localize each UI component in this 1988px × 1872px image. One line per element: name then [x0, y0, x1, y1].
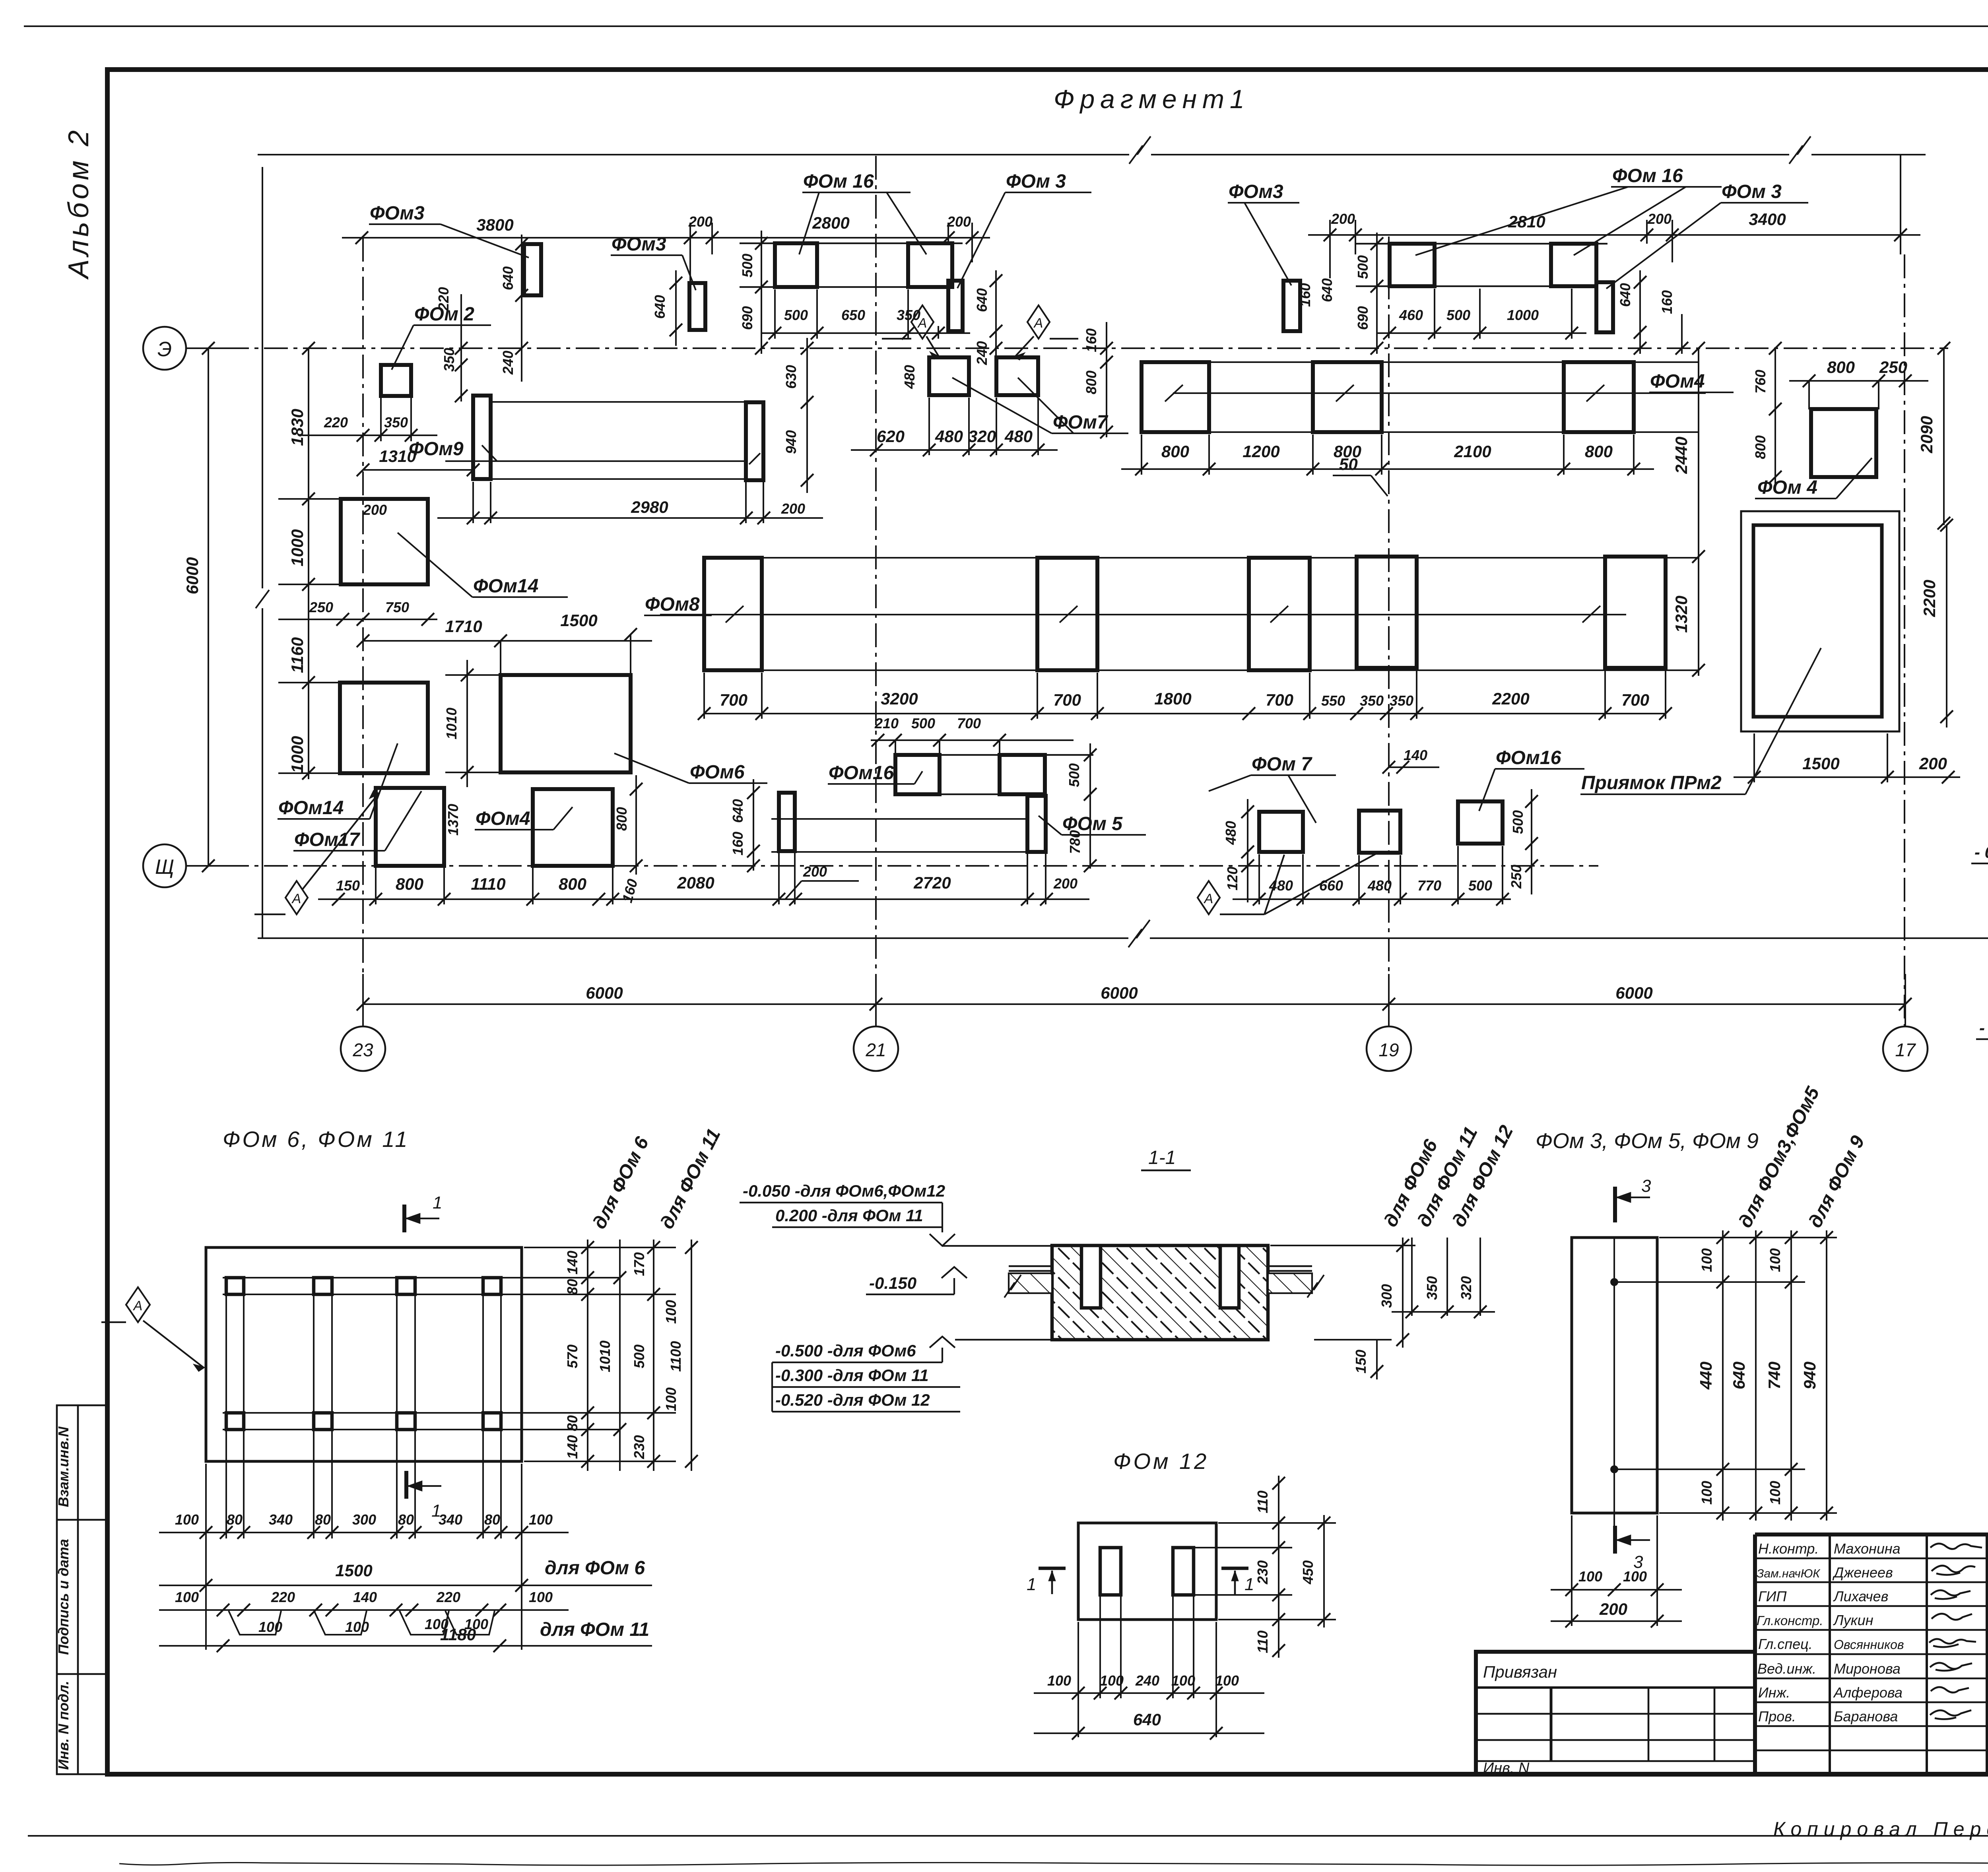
svg-text:740: 740 — [1765, 1362, 1784, 1389]
svg-text:1500: 1500 — [335, 1561, 372, 1580]
svg-text:1010: 1010 — [597, 1340, 613, 1372]
svg-text:100: 100 — [175, 1589, 199, 1605]
svg-text:800: 800 — [1827, 358, 1855, 376]
svg-text:640: 640 — [652, 295, 668, 319]
svg-text:ФОм9: ФОм9 — [409, 438, 464, 460]
svg-text:6000: 6000 — [1101, 984, 1138, 1002]
svg-text:А: А — [1033, 316, 1043, 331]
foundation ФОм5 left thin rect — [779, 793, 795, 851]
svg-text:140: 140 — [564, 1251, 580, 1275]
foundation ФОм7 sq1 — [929, 357, 969, 395]
svg-text:ФОм6: ФОм6 — [690, 762, 745, 783]
center line — [1613, 1238, 1615, 1538]
svg-text:6000: 6000 — [586, 984, 623, 1002]
svg-text:200: 200 — [1599, 1600, 1627, 1618]
sheet outer cut line bottom — [28, 1835, 1988, 1837]
svg-text:А: А — [133, 1298, 143, 1313]
right dims — [1195, 1476, 1336, 1658]
svg-text:Дженеев: Дженеев — [1832, 1564, 1893, 1581]
svg-text:200: 200 — [1331, 211, 1355, 227]
left top chain line — [342, 237, 990, 239]
section mark 1 bottom — [406, 1471, 441, 1499]
svg-text:150: 150 — [336, 877, 360, 894]
svg-text:230: 230 — [631, 1435, 647, 1459]
svg-text:480: 480 — [1004, 427, 1033, 446]
pit Приямок ПРм2 outer — [1741, 511, 1899, 731]
svg-text:640: 640 — [1319, 278, 1335, 302]
svg-text:1: 1 — [1027, 1575, 1036, 1594]
svg-text:500: 500 — [1446, 307, 1470, 323]
strip lines — [660, 558, 1699, 670]
FOm9 extension lines — [445, 402, 746, 479]
svg-text:160: 160 — [1297, 283, 1313, 307]
svg-text:100: 100 — [258, 1619, 282, 1635]
svg-text:2100: 2100 — [1454, 442, 1491, 461]
svg-text:800: 800 — [1585, 442, 1613, 461]
svg-text:500: 500 — [911, 715, 935, 731]
svg-text:2440: 2440 — [1672, 436, 1691, 474]
foundation ФОм7 sq4 — [1359, 811, 1400, 853]
svg-text:для ФОм 6: для ФОм 6 — [545, 1558, 645, 1579]
svg-text:2080: 2080 — [677, 873, 714, 892]
svg-text:Овсянников: Овсянников — [1834, 1637, 1904, 1652]
svg-text:Инж.: Инж. — [1758, 1684, 1790, 1701]
beam outline group2 — [1356, 244, 1607, 286]
svg-text:660: 660 — [1319, 877, 1343, 894]
anchor dots — [1610, 1278, 1618, 1286]
svg-text:Лукин: Лукин — [1833, 1612, 1873, 1628]
right flange — [1268, 1266, 1312, 1271]
svg-text:100: 100 — [1578, 1568, 1602, 1585]
svg-text:640: 640 — [1133, 1710, 1161, 1729]
svg-text:350: 350 — [1360, 693, 1384, 709]
svg-text:19: 19 — [1378, 1040, 1399, 1060]
foundation ФОм2 — [381, 365, 411, 396]
svg-text:Приямок ПРм2: Приямок ПРм2 — [1581, 772, 1722, 793]
svg-text:Миронова: Миронова — [1834, 1661, 1901, 1677]
svg-text:50: 50 — [1339, 455, 1358, 473]
foundation ФОм16 g3 rect1 — [895, 755, 940, 794]
svg-text:1000: 1000 — [288, 529, 307, 566]
left margin strip — [57, 1405, 107, 1774]
svg-text:620: 620 — [877, 427, 905, 446]
svg-text:350: 350 — [1390, 693, 1413, 709]
beam lines g3 — [940, 755, 1093, 794]
svg-text:80: 80 — [398, 1511, 414, 1528]
svg-text:1: 1 — [1244, 1575, 1254, 1594]
svg-text:ФОм14: ФОм14 — [278, 797, 344, 819]
svg-text:700: 700 — [957, 715, 981, 731]
svg-text:1: 1 — [433, 1193, 442, 1212]
foundation ФОм16 group2 rect1 — [1390, 244, 1435, 286]
svg-text:1000: 1000 — [288, 736, 307, 773]
diamond A detail — [101, 1287, 204, 1371]
svg-text:220: 220 — [436, 1589, 460, 1605]
svg-text:100: 100 — [1047, 1672, 1071, 1689]
diamond A 1 — [882, 305, 939, 359]
foundation ФОм3 d — [1283, 281, 1300, 331]
svg-text:780: 780 — [1067, 830, 1083, 854]
plan top boundary line — [258, 136, 1926, 164]
axis Э circle — [143, 327, 186, 370]
svg-text:480: 480 — [1367, 877, 1392, 894]
svg-text:700: 700 — [1621, 691, 1649, 709]
svg-text:200: 200 — [688, 213, 712, 230]
strip lines FOm4 row — [1142, 362, 1699, 432]
svg-text:3200: 3200 — [881, 689, 918, 708]
svg-text:Копировал Перелыгина: Копировал Перелыгина — [1773, 1818, 1988, 1840]
svg-text:-0.520 -для ФОм 12: -0.520 -для ФОм 12 — [775, 1391, 930, 1409]
svg-text:640: 640 — [730, 799, 746, 823]
foundation ФОм3 c — [948, 281, 963, 331]
axis Щ circle — [143, 844, 186, 887]
left attachment table — [1476, 1652, 1755, 1774]
svg-text:200: 200 — [1919, 754, 1947, 773]
svg-text:-0.500 -для ФОм6: -0.500 -для ФОм6 — [775, 1341, 916, 1360]
svg-text:Подпись и дата: Подпись и дата — [55, 1539, 72, 1655]
svg-text:1370: 1370 — [445, 804, 461, 836]
svg-text:100: 100 — [529, 1511, 553, 1528]
svg-text:110: 110 — [1254, 1630, 1271, 1653]
svg-text:480: 480 — [1269, 877, 1293, 894]
leader line through row — [1165, 385, 1706, 402]
svg-text:690: 690 — [1355, 306, 1371, 330]
foundation ФОм5 — [1027, 796, 1046, 852]
svg-text:640: 640 — [974, 288, 990, 312]
svg-text:640: 640 — [1617, 283, 1633, 307]
svg-text:640: 640 — [500, 266, 516, 290]
foundation ФОм8 r5 — [1605, 557, 1666, 668]
body — [1078, 1523, 1216, 1620]
svg-text:А: А — [1204, 891, 1213, 906]
svg-text:80: 80 — [227, 1511, 243, 1528]
svg-text:-0.150: -0.150 — [869, 1274, 916, 1292]
svg-text:500: 500 — [1468, 877, 1492, 894]
svg-text:23: 23 — [352, 1040, 373, 1060]
foundation ФОм16 group1 rect2 — [908, 243, 952, 287]
hole squares top row — [226, 1278, 244, 1294]
right top chain line — [1308, 234, 1920, 236]
axis 21 line — [875, 156, 877, 1026]
svg-text:1160: 1160 — [288, 637, 307, 673]
svg-text:для ФОм 11: для ФОм 11 — [540, 1619, 649, 1640]
foundation ФОм17 rect — [376, 788, 444, 866]
foundation ФОм14 lower — [340, 683, 428, 773]
svg-text:1200: 1200 — [1242, 442, 1279, 461]
svg-text:200: 200 — [1647, 211, 1672, 227]
svg-text:ФОм8: ФОм8 — [645, 594, 700, 615]
svg-text:100: 100 — [1767, 1248, 1783, 1272]
svg-text:17: 17 — [1895, 1040, 1916, 1060]
svg-text:350: 350 — [1424, 1276, 1440, 1300]
hole squares bottom row — [226, 1413, 244, 1430]
diamond A 4 — [254, 791, 379, 914]
svg-text:800: 800 — [613, 807, 630, 831]
svg-text:480: 480 — [901, 365, 918, 389]
svg-text:110: 110 — [1254, 1490, 1271, 1513]
svg-text:А: А — [917, 316, 927, 331]
svg-text:Махонина: Махонина — [1834, 1540, 1901, 1557]
svg-text:200: 200 — [803, 863, 827, 880]
svg-text:500: 500 — [1355, 255, 1371, 279]
svg-text:140: 140 — [564, 1435, 580, 1459]
svg-text:Баранова: Баранова — [1834, 1708, 1898, 1725]
svg-text:1710: 1710 — [445, 617, 482, 636]
svg-text:460: 460 — [1399, 307, 1423, 323]
foundation ФОм16 square — [1458, 801, 1503, 844]
svg-text:100: 100 — [1215, 1672, 1239, 1689]
svg-text:1800: 1800 — [1154, 689, 1191, 708]
foundation ФОм9 right post — [746, 402, 763, 480]
left flange — [1009, 1266, 1052, 1271]
svg-text:А: А — [291, 891, 301, 906]
svg-text:1180: 1180 — [440, 1625, 476, 1644]
foundation ФОм8 r1 — [704, 558, 762, 670]
svg-text:100: 100 — [663, 1300, 679, 1324]
axis 19 line — [1388, 237, 1390, 1026]
plan bottom boundary line — [258, 920, 1988, 947]
svg-text:1110: 1110 — [471, 875, 505, 893]
svg-text:800: 800 — [1161, 442, 1189, 461]
signature squiggles — [1929, 1544, 1982, 1719]
svg-text:80: 80 — [484, 1511, 500, 1528]
svg-text:120: 120 — [1224, 867, 1241, 890]
svg-text:ФОм 3, ФОм 5, ФОм 9: ФОм 3, ФОм 5, ФОм 9 — [1536, 1129, 1759, 1153]
foundation ФОм7 sq3 — [1259, 812, 1303, 852]
svg-text:340: 340 — [269, 1511, 293, 1528]
svg-text:ФОм 3: ФОм 3 — [1006, 171, 1066, 192]
svg-text:750: 750 — [385, 599, 409, 615]
svg-text:100: 100 — [1699, 1481, 1715, 1505]
svg-text:250: 250 — [309, 599, 333, 615]
svg-text:800: 800 — [559, 875, 586, 893]
left long extension line — [256, 167, 269, 938]
svg-text:ФОм 7: ФОм 7 — [1252, 754, 1312, 775]
svg-text:6000: 6000 — [1615, 984, 1652, 1002]
pit inner wall — [1753, 525, 1882, 717]
diamond A 2 — [1015, 305, 1078, 359]
svg-text:80: 80 — [564, 1279, 580, 1295]
foundation ФОм16 group1 rect1 — [775, 243, 817, 287]
svg-text:480: 480 — [1223, 821, 1239, 845]
signature table left edge — [1753, 1534, 1757, 1774]
svg-text:500: 500 — [1066, 763, 1082, 787]
svg-text:500: 500 — [739, 254, 755, 277]
main body — [206, 1247, 522, 1461]
svg-text:ФОм16: ФОм16 — [829, 762, 894, 784]
svg-text:200: 200 — [781, 500, 805, 517]
svg-text:1500: 1500 — [1802, 754, 1839, 773]
svg-text:Инв. N: Инв. N — [1483, 1760, 1530, 1777]
svg-text:100: 100 — [1699, 1248, 1715, 1272]
svg-text:ФОм16: ФОм16 — [1496, 747, 1561, 768]
foundation ФОм3 e — [1596, 282, 1613, 332]
sheet bottom wavy edge — [119, 1862, 1988, 1865]
bottom span dimension line 6000s — [357, 974, 1912, 1026]
svg-text:100: 100 — [345, 1619, 369, 1635]
svg-text:320: 320 — [1458, 1276, 1474, 1300]
svg-text:240: 240 — [974, 341, 990, 365]
svg-text:170: 170 — [631, 1252, 647, 1276]
svg-text:640: 640 — [1730, 1362, 1748, 1389]
svg-text:ФОм 4: ФОм 4 — [1757, 477, 1817, 498]
svg-text:Гл.констр.: Гл.констр. — [1757, 1613, 1823, 1628]
svg-text:1100: 1100 — [668, 1341, 684, 1372]
svg-text:570: 570 — [564, 1344, 580, 1368]
svg-text:- 0.550: - 0.550 — [1979, 1018, 1988, 1037]
svg-text:230: 230 — [1254, 1560, 1271, 1585]
axis 17 line — [1904, 254, 1905, 1026]
svg-text:ГИП: ГИП — [1758, 1588, 1787, 1604]
svg-text:1000: 1000 — [1507, 307, 1539, 323]
svg-text:ФОм4: ФОм4 — [476, 808, 530, 829]
svg-text:3400: 3400 — [1749, 210, 1786, 229]
foundation ФОм8 r3 — [1249, 558, 1310, 670]
svg-text:Э: Э — [157, 338, 172, 361]
signature table column lines — [1829, 1534, 1831, 1774]
foundation ФОм8 r4 — [1357, 557, 1417, 668]
svg-text:Взам.инв.N: Взам.инв.N — [55, 1426, 72, 1507]
section marks 1 — [1039, 1568, 1248, 1594]
svg-text:-0.050 -для ФОм6,ФОм12: -0.050 -для ФОм6,ФОм12 — [743, 1181, 945, 1200]
svg-text:ФОм 12: ФОм 12 — [1113, 1449, 1209, 1474]
svg-text:140: 140 — [353, 1589, 377, 1605]
svg-text:550: 550 — [1321, 693, 1345, 709]
svg-text:- 0.150: - 0.150 — [1974, 843, 1988, 861]
svg-text:800: 800 — [1083, 371, 1099, 394]
foundation ФОм3 b — [689, 283, 705, 330]
svg-text:160: 160 — [1083, 328, 1099, 352]
right dim group — [503, 1240, 698, 1471]
svg-text:-0.300 -для ФОм 11: -0.300 -для ФОм 11 — [775, 1366, 929, 1385]
svg-text:770: 770 — [1417, 877, 1441, 894]
svg-text:100: 100 — [1623, 1568, 1647, 1585]
svg-text:250: 250 — [1879, 358, 1907, 376]
svg-text:2200: 2200 — [1492, 689, 1529, 708]
svg-text:650: 650 — [841, 307, 865, 323]
slot right — [1173, 1548, 1194, 1595]
section 1-1 hatched body — [1052, 1245, 1268, 1340]
svg-text:160: 160 — [730, 832, 746, 855]
svg-text:ФОм 16: ФОм 16 — [1612, 165, 1683, 186]
svg-text:300: 300 — [352, 1511, 376, 1528]
svg-text:100: 100 — [663, 1387, 679, 1411]
svg-text:690: 690 — [739, 306, 755, 330]
axis Э line — [186, 347, 1948, 349]
foundation ФОм4 S2 — [1313, 362, 1382, 432]
svg-text:200: 200 — [947, 213, 971, 230]
left vertical 6000 dimension — [190, 342, 247, 872]
svg-text:Вед.инж.: Вед.инж. — [1757, 1661, 1816, 1677]
svg-text:Алферова: Алферова — [1833, 1684, 1903, 1701]
section mark 3 top — [1615, 1187, 1650, 1222]
svg-text:Альбом 2: Альбом 2 — [63, 127, 95, 280]
svg-text:6000: 6000 — [183, 557, 202, 594]
svg-text:340: 340 — [439, 1511, 462, 1528]
axis 23 line — [362, 238, 364, 1026]
diamond A 3 — [1198, 854, 1376, 914]
title block texts — [1757, 1540, 1904, 1725]
sheet outer cut line top — [24, 25, 1988, 27]
svg-text:Щ: Щ — [155, 855, 174, 879]
foundation ФОм8 r2 — [1037, 558, 1097, 670]
foundation ФОм16 g3 rect2 — [1000, 755, 1045, 794]
axis Щ line — [186, 865, 1598, 867]
title block top border — [1755, 1533, 1988, 1536]
svg-text:940: 940 — [783, 430, 799, 454]
inner hole squares row structure — [223, 1278, 522, 1538]
svg-text:ФОм17: ФОм17 — [294, 829, 361, 850]
svg-text:1010: 1010 — [443, 708, 460, 739]
slant 100 leaders — [229, 1611, 495, 1635]
left chain dimension line — [278, 342, 358, 780]
svg-text:2200: 2200 — [1920, 580, 1939, 617]
svg-text:440: 440 — [1697, 1362, 1715, 1390]
beam outline group1 — [740, 243, 963, 287]
svg-text:ФОм 16: ФОм 16 — [803, 171, 874, 192]
svg-text:ФОм 6, ФОм 11: ФОм 6, ФОм 11 — [223, 1127, 409, 1152]
svg-text:ФОм7: ФОм7 — [1053, 412, 1109, 433]
svg-text:3800: 3800 — [476, 215, 513, 234]
axis 21 circle — [854, 1026, 898, 1071]
svg-text:21: 21 — [865, 1040, 886, 1060]
svg-text:2720: 2720 — [913, 873, 951, 892]
svg-text:220: 220 — [271, 1589, 295, 1605]
svg-text:3: 3 — [1641, 1176, 1651, 1196]
svg-text:100: 100 — [1767, 1481, 1783, 1505]
svg-text:200: 200 — [363, 502, 387, 518]
foundation ФОм6 — [501, 675, 631, 772]
svg-text:ФОм3: ФОм3 — [612, 234, 666, 255]
svg-text:500: 500 — [631, 1344, 647, 1368]
svg-text:Зам.начЮК: Зам.начЮК — [1757, 1567, 1821, 1580]
svg-text:Н.контр.: Н.контр. — [1758, 1540, 1819, 1557]
svg-text:250: 250 — [1508, 865, 1524, 889]
svg-text:100: 100 — [529, 1589, 553, 1605]
svg-text:0.200 -для ФОм 11: 0.200 -для ФОм 11 — [775, 1206, 923, 1225]
svg-text:760: 760 — [1752, 370, 1769, 394]
svg-text:1320: 1320 — [1672, 596, 1691, 632]
svg-text:480: 480 — [935, 427, 963, 446]
foundation ФОм3 a — [524, 244, 541, 295]
svg-text:Инв. N подл.: Инв. N подл. — [55, 1681, 72, 1770]
foundation ФОм4 low rect — [533, 789, 613, 866]
svg-text:Пров.: Пров. — [1758, 1708, 1796, 1725]
foundation ФОм16 group2 rect2 — [1551, 244, 1596, 286]
svg-text:ФОм3: ФОм3 — [370, 203, 425, 224]
svg-text:800: 800 — [1752, 435, 1769, 459]
svg-text:ФОм4: ФОм4 — [1650, 371, 1705, 392]
svg-text:80: 80 — [315, 1511, 331, 1528]
svg-text:700: 700 — [1053, 691, 1081, 709]
slot left — [1100, 1548, 1121, 1595]
body tall rect — [1572, 1238, 1657, 1513]
svg-text:700: 700 — [1266, 691, 1293, 709]
svg-text:ФОм3: ФОм3 — [1229, 181, 1283, 202]
foundation ФОм4 b — [1811, 409, 1876, 477]
svg-text:2980: 2980 — [631, 498, 668, 516]
svg-text:ФОм 3: ФОм 3 — [1722, 181, 1782, 202]
axis 19 circle — [1367, 1026, 1411, 1071]
svg-text:220: 220 — [324, 414, 348, 431]
axis 23 circle — [341, 1026, 385, 1071]
svg-text:Фрагмент1: Фрагмент1 — [1054, 84, 1250, 114]
svg-text:240: 240 — [1135, 1672, 1159, 1689]
svg-text:100: 100 — [175, 1511, 199, 1528]
svg-text:140: 140 — [1404, 747, 1427, 763]
svg-text:ФОм14: ФОм14 — [473, 576, 538, 597]
svg-text:160: 160 — [1659, 290, 1675, 314]
